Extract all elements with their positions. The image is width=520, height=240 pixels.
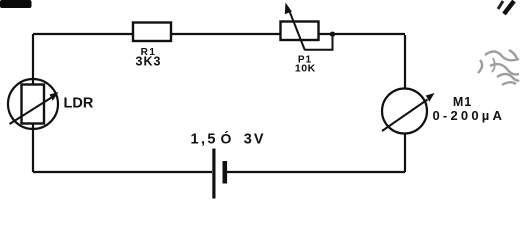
svg-text:0-200µA: 0-200µA xyxy=(433,108,506,123)
svg-text:LDR: LDR xyxy=(64,95,94,111)
svg-text:3K3: 3K3 xyxy=(136,55,162,69)
svg-text:10K: 10K xyxy=(295,62,316,74)
svg-text:Ó: Ó xyxy=(221,130,232,147)
svg-text:1,5: 1,5 xyxy=(191,132,218,148)
svg-text:3V: 3V xyxy=(244,132,266,148)
